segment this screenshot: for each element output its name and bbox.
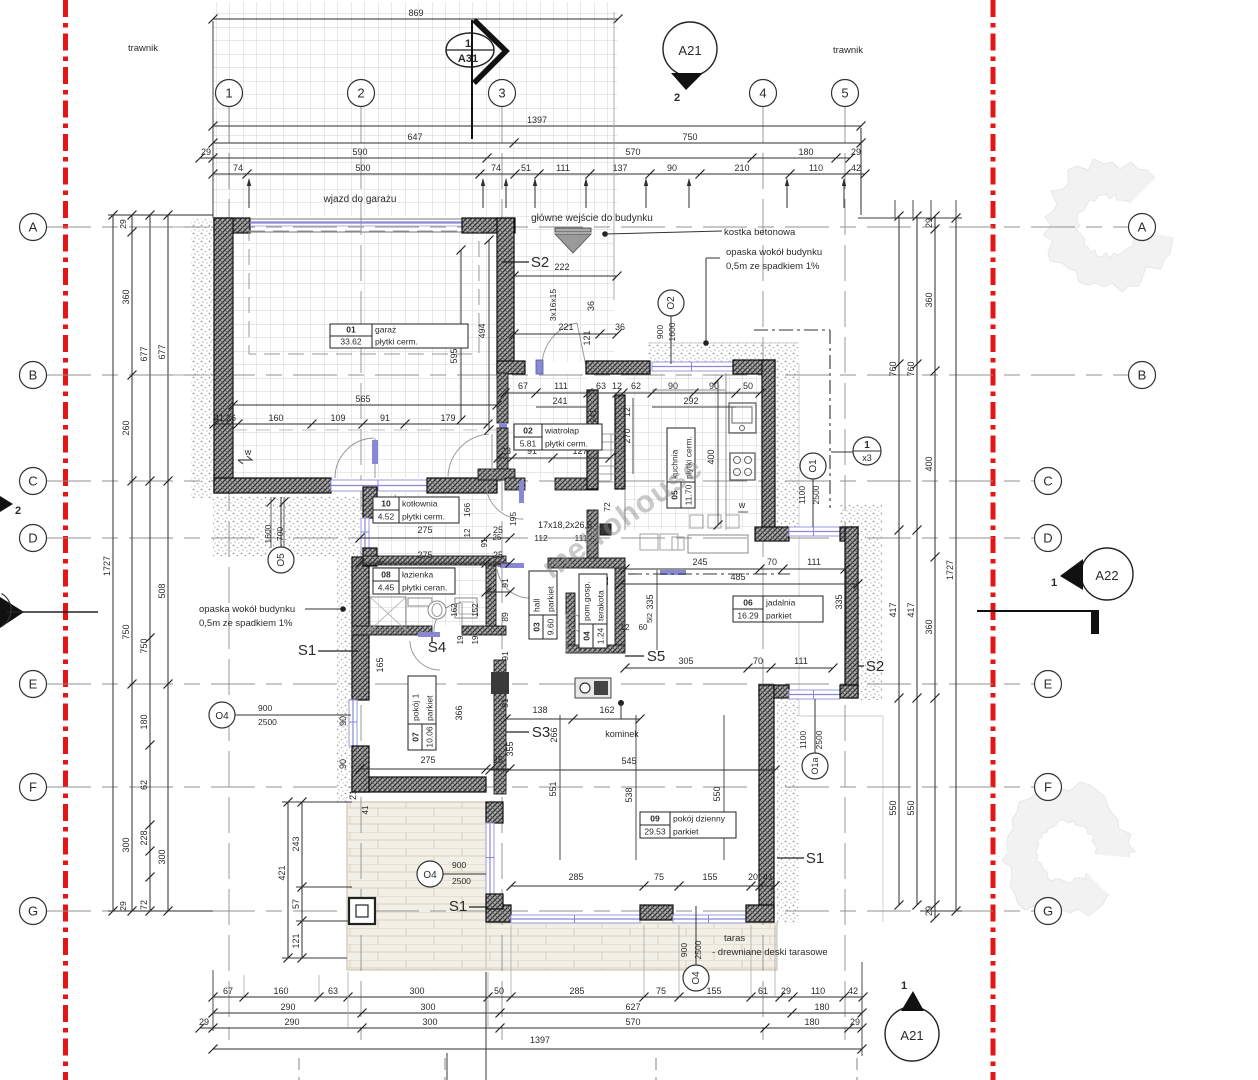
- svg-text:S1: S1: [806, 850, 824, 867]
- svg-text:F: F: [1044, 780, 1052, 795]
- svg-text:19: 19: [456, 635, 465, 644]
- svg-text:90: 90: [338, 716, 348, 726]
- garage vertical dims 595 494: [449, 236, 494, 435]
- svg-text:06: 06: [743, 598, 753, 608]
- left edge marker arrow 2 upper: [0, 496, 21, 517]
- svg-text:kotłownia: kotłownia: [402, 499, 438, 509]
- svg-text:2500: 2500: [258, 717, 277, 727]
- marker A31 top section flag: [446, 20, 506, 139]
- wall hall east internal: [566, 593, 575, 650]
- wall lazienka south internal west: [352, 626, 432, 635]
- room label 04 pom gosp: [579, 574, 607, 648]
- terrace wood deck left block: [347, 802, 486, 970]
- svg-text:0,5m ze spadkiem 1%: 0,5m ze spadkiem 1%: [726, 261, 820, 272]
- svg-text:1: 1: [864, 440, 870, 451]
- svg-text:360: 360: [924, 292, 934, 307]
- dimension column left inner: [121, 211, 137, 916]
- wall pokoj dzienny south west corner: [486, 905, 511, 922]
- wall garage south east segment: [427, 478, 497, 493]
- wall jadalnia south east corner: [840, 685, 858, 698]
- axis F horizontal dashed line: [47, 786, 1034, 788]
- wall pokoj dzienny west lower corner: [486, 894, 503, 909]
- kotlownia south dim row 275: [356, 525, 515, 543]
- tree symbol upper right: [1043, 129, 1243, 292]
- label taras: [712, 933, 828, 958]
- dimension 647 750: [209, 132, 866, 148]
- svg-text:91: 91: [380, 413, 390, 423]
- svg-text:50: 50: [743, 381, 753, 391]
- svg-text:90: 90: [668, 381, 678, 391]
- svg-text:A: A: [29, 220, 38, 235]
- lazienka washbasin: [408, 598, 446, 619]
- svg-text:O4: O4: [691, 971, 702, 985]
- svg-text:w: w: [738, 500, 746, 510]
- marker A22 section cut line: [977, 611, 1099, 634]
- window pokoj dzienny south 2: [673, 915, 746, 923]
- axis C circle left: [20, 468, 47, 495]
- svg-text:29: 29: [850, 1017, 860, 1027]
- wall pokoj dzienny east: [759, 685, 774, 919]
- kotlownia dims: [462, 503, 518, 548]
- svg-text:2: 2: [674, 92, 680, 104]
- wall pokoj dzienny south middle pier: [640, 905, 673, 920]
- svg-text:63: 63: [328, 986, 338, 996]
- svg-text:20: 20: [748, 872, 758, 882]
- svg-text:1727: 1727: [945, 560, 955, 580]
- wall pokoj dzienny west upper corner: [486, 802, 503, 823]
- svg-text:91: 91: [480, 538, 489, 547]
- door garage left swing: [335, 438, 375, 478]
- svg-text:F: F: [29, 780, 37, 795]
- svg-text:S2: S2: [866, 658, 884, 675]
- svg-text:292: 292: [683, 396, 698, 406]
- svg-text:kominek: kominek: [605, 729, 639, 739]
- dimension column right third: [924, 212, 940, 923]
- svg-text:275: 275: [420, 755, 435, 765]
- svg-text:A31: A31: [458, 53, 478, 65]
- wall pom gosp south internal: [566, 645, 625, 653]
- svg-text:545: 545: [621, 756, 636, 766]
- paving grid entry porch: [500, 216, 614, 362]
- dim 241 292: [536, 396, 736, 407]
- property boundary red line left: [63, 0, 68, 1080]
- axis 1 circle top: [216, 80, 243, 107]
- axis F circle right: [1035, 774, 1062, 801]
- room label 05 kuchnia: [667, 428, 695, 508]
- chimney flue block: [600, 524, 611, 535]
- svg-text:647: 647: [407, 132, 422, 142]
- svg-text:1: 1: [901, 980, 907, 992]
- wall west lower section upper: [352, 557, 369, 700]
- svg-text:565: 565: [355, 394, 370, 404]
- svg-text:508: 508: [157, 583, 167, 598]
- dim 72 89 91 near hall: [500, 502, 612, 708]
- svg-text:241: 241: [589, 409, 598, 423]
- svg-text:260: 260: [121, 420, 131, 435]
- wall shaft east kuchnia side: [615, 395, 625, 489]
- dim row 285 75 155 20 41 salon south: [507, 872, 780, 891]
- svg-text:29: 29: [781, 986, 791, 996]
- label kostka betonowa with leader: [603, 227, 796, 238]
- section mark S2 right: [858, 658, 884, 675]
- svg-text:36: 36: [615, 322, 625, 332]
- lazienka dim row 2: [450, 603, 480, 645]
- floor grid wiatrolap: [508, 374, 587, 478]
- tree symbol lower right: [1002, 782, 1206, 952]
- axis G circle right: [1035, 898, 1062, 925]
- svg-text:121: 121: [291, 933, 301, 948]
- floor grid kuchnia: [625, 373, 762, 530]
- section mark S1 left: [298, 642, 358, 659]
- svg-text:parkiet: parkiet: [766, 611, 792, 621]
- svg-text:180: 180: [139, 714, 149, 729]
- svg-text:pom.gosp.: pom.gosp.: [582, 581, 592, 621]
- floor grid kotlownia: [377, 493, 497, 556]
- svg-text:366: 366: [454, 705, 464, 720]
- svg-text:w: w: [244, 447, 252, 457]
- jadalnia table and chairs: [672, 515, 748, 553]
- door wiatrolap swing into hall: [486, 486, 523, 520]
- wall spine west of wiatrolap upper: [497, 373, 508, 423]
- axis 4 circle top: [750, 80, 777, 107]
- axis 1 vertical dashed line: [228, 107, 230, 1040]
- svg-text:1100: 1100: [798, 731, 808, 750]
- svg-text:C: C: [28, 474, 37, 489]
- wall lazienka south internal east: [462, 626, 506, 635]
- garage interior dim 565: [229, 394, 502, 410]
- wall garage west: [214, 218, 233, 493]
- door pokoj 07 swing: [410, 641, 440, 670]
- svg-text:74: 74: [491, 163, 501, 173]
- svg-text:pokój 1: pokój 1: [411, 693, 421, 721]
- svg-text:677: 677: [139, 346, 149, 361]
- svg-text:266: 266: [549, 727, 559, 742]
- dim 485: [616, 572, 863, 589]
- svg-text:360: 360: [924, 619, 934, 634]
- svg-text:89: 89: [500, 612, 510, 622]
- dim 138 162 kominek: [502, 705, 645, 724]
- svg-text:228: 228: [139, 830, 149, 845]
- svg-text:5l2: 5l2: [645, 613, 654, 623]
- kuchnia fridge w mark: [738, 500, 748, 512]
- svg-text:160: 160: [273, 986, 288, 996]
- svg-text:29: 29: [118, 219, 128, 229]
- dimension row 74 500 74 51 111 137 90 210 110 42: [209, 163, 870, 179]
- svg-text:137: 137: [612, 163, 627, 173]
- kominek label and dot: [605, 701, 639, 740]
- svg-text:trawnik: trawnik: [833, 45, 863, 56]
- svg-text:91: 91: [500, 698, 510, 708]
- svg-text:12: 12: [489, 0, 499, 2]
- wall entry porch south west piece: [497, 361, 525, 374]
- svg-text:parkiet: parkiet: [673, 827, 699, 837]
- wall entry to kitchen north segment: [586, 361, 650, 374]
- svg-text:2: 2: [357, 86, 364, 101]
- w mark lazienka: [376, 557, 384, 567]
- svg-text:12: 12: [621, 623, 630, 632]
- svg-text:opaska wokół budynku: opaska wokół budynku: [726, 247, 822, 258]
- window pokoj 07 west: [349, 700, 357, 746]
- kitchen upper cabinets line: [625, 490, 678, 550]
- window jadalnia south: [789, 690, 840, 699]
- svg-text:160: 160: [268, 413, 283, 423]
- svg-text:25: 25: [493, 755, 503, 765]
- svg-text:1600: 1600: [263, 524, 273, 543]
- svg-text:900: 900: [655, 325, 665, 339]
- window pokoj dzienny south 1: [511, 915, 640, 923]
- stairs treads: [599, 434, 624, 482]
- svg-text:61: 61: [758, 986, 768, 996]
- svg-text:19: 19: [471, 635, 480, 644]
- axis A horizontal dashed line: [47, 226, 1128, 228]
- window kuchnia north: [652, 362, 733, 371]
- svg-text:- drewniane deski tarasowe: - drewniane deski tarasowe: [712, 947, 828, 958]
- svg-text:D: D: [1043, 531, 1052, 546]
- svg-text:494: 494: [477, 323, 487, 338]
- svg-text:A: A: [1138, 220, 1147, 235]
- dim 400 kuchnia: [706, 376, 723, 530]
- svg-text:1: 1: [225, 86, 232, 101]
- svg-text:23: 23: [501, 446, 511, 456]
- window marker O1a: [798, 699, 828, 779]
- svg-text:4.52: 4.52: [378, 512, 395, 522]
- svg-text:121: 121: [582, 330, 592, 345]
- axis B horizontal dashed line: [47, 374, 1128, 376]
- label trawnik right: [833, 45, 863, 56]
- opaska stipple east of jadalnia: [858, 528, 882, 700]
- dim 270 12 shaft: [622, 398, 633, 474]
- dimension column left wallface: [157, 211, 173, 916]
- svg-text:1: 1: [465, 38, 471, 50]
- svg-text:152: 152: [471, 603, 480, 617]
- svg-text:162: 162: [599, 705, 614, 715]
- axis A circle left: [20, 214, 47, 241]
- wall jadalnia north step segment: [755, 527, 789, 541]
- section mark S1 right bottom: [777, 850, 824, 867]
- axis 5 vertical dashed line: [844, 107, 846, 1040]
- svg-text:07: 07: [411, 732, 421, 742]
- axis D horizontal dashed line: [47, 537, 1034, 539]
- stairs dim label 17x18: [534, 520, 592, 543]
- svg-text:12: 12: [463, 528, 472, 537]
- label wjazd do garazu: [323, 194, 397, 205]
- door garage corridor blue post: [499, 423, 507, 428]
- room label 03 hall: [529, 571, 557, 639]
- axis E horizontal dashed line: [47, 683, 1034, 685]
- svg-text:2: 2: [15, 505, 21, 517]
- svg-text:S3: S3: [532, 724, 550, 741]
- dimension column right 1727: [945, 214, 961, 916]
- wall garage south west segment: [214, 478, 331, 493]
- svg-text:08: 08: [381, 570, 391, 580]
- svg-text:111: 111: [807, 557, 821, 567]
- svg-text:180: 180: [814, 1002, 829, 1012]
- stairs label 3x16x15: [548, 289, 558, 321]
- floor grid garage interior: [229, 232, 497, 478]
- svg-text:60: 60: [639, 623, 648, 632]
- svg-text:9.60: 9.60: [546, 618, 556, 635]
- marker A21 top balloon: [663, 22, 717, 104]
- window garage south: [331, 480, 427, 491]
- lazienka dims 275 rows: [356, 0, 515, 597]
- svg-text:750: 750: [139, 638, 149, 653]
- terrace dimension column 421: [277, 798, 293, 963]
- section mark S3: [506, 724, 550, 741]
- svg-text:138: 138: [532, 705, 547, 715]
- svg-text:1: 1: [1051, 577, 1057, 589]
- svg-text:kostka betonowa: kostka betonowa: [724, 227, 796, 238]
- svg-text:D: D: [28, 531, 37, 546]
- wall komin partition: [494, 660, 506, 794]
- door wiatrolap hall blue post: [519, 481, 524, 503]
- svg-text:290: 290: [284, 1017, 299, 1027]
- axis C circle right: [1035, 468, 1062, 495]
- svg-text:terakota: terakota: [596, 590, 606, 621]
- section mark S2 top with leader: [502, 254, 549, 271]
- opaska dashdot salon line: [628, 573, 790, 575]
- svg-text:jadalnia: jadalnia: [765, 598, 796, 608]
- label opaska right with leader: [704, 247, 822, 345]
- axis E circle left: [20, 671, 47, 698]
- opaska stipple northeast corner jadalnia: [840, 505, 882, 530]
- axis D circle left: [20, 525, 47, 552]
- wall pom gosp east internal: [615, 558, 625, 650]
- window marker O5: [263, 497, 294, 573]
- svg-text:hall: hall: [532, 599, 542, 612]
- svg-text:42: 42: [848, 986, 858, 996]
- svg-text:180: 180: [798, 147, 813, 157]
- svg-text:trawnik: trawnik: [128, 43, 158, 54]
- dimension column right second: [906, 212, 922, 910]
- svg-text:335: 335: [645, 594, 655, 609]
- wall lazienka north internal: [363, 556, 506, 565]
- axis B circle right: [1129, 362, 1156, 389]
- svg-text:570: 570: [625, 147, 640, 157]
- room label 07 pokoj: [408, 676, 436, 750]
- svg-text:25: 25: [493, 560, 502, 569]
- svg-text:595: 595: [449, 348, 459, 363]
- svg-text:29: 29: [118, 901, 128, 911]
- svg-text:677: 677: [157, 344, 167, 359]
- svg-text:pokój dzienny: pokój dzienny: [673, 814, 726, 824]
- marker A22 right balloon: [1051, 548, 1133, 600]
- svg-text:750: 750: [682, 132, 697, 142]
- dim 221 36 entry steps: [510, 301, 626, 346]
- left edge marker section wedge: [0, 594, 98, 629]
- floor grid lazienka: [368, 566, 486, 626]
- svg-text:75: 75: [656, 986, 666, 996]
- axis G circle left: [20, 898, 47, 925]
- kuchnia counter line: [652, 373, 726, 530]
- svg-text:29.53: 29.53: [644, 827, 666, 837]
- dim 222 entry: [510, 262, 622, 281]
- garage inner dashed rectangle: [249, 231, 479, 354]
- svg-text:2500: 2500: [452, 876, 471, 886]
- svg-text:162: 162: [450, 603, 459, 617]
- svg-text:09: 09: [650, 814, 660, 824]
- svg-text:900: 900: [452, 860, 466, 870]
- svg-text:25: 25: [493, 550, 503, 560]
- svg-text:O2: O2: [666, 296, 677, 310]
- svg-text:75: 75: [654, 872, 664, 882]
- property boundary red line right: [991, 0, 996, 1080]
- door garage right swing: [448, 434, 492, 478]
- svg-text:O1a: O1a: [810, 757, 820, 774]
- opaska stipple east of kuchnia: [775, 364, 799, 530]
- w mark garage: [238, 447, 252, 464]
- svg-text:165: 165: [375, 657, 385, 672]
- svg-text:16.29: 16.29: [737, 611, 759, 621]
- svg-text:417: 417: [888, 602, 898, 617]
- entry door blue post: [536, 360, 543, 374]
- svg-text:płytki cerm.: płytki cerm.: [375, 337, 418, 347]
- svg-text:1.24: 1.24: [596, 627, 606, 644]
- svg-text:taras: taras: [724, 933, 745, 944]
- svg-text:2500: 2500: [814, 730, 824, 749]
- svg-text:parkiet: parkiet: [425, 695, 435, 721]
- svg-text:główne wejście do budynku: główne wejście do budynku: [531, 213, 653, 224]
- bottom row 29 290 300 570 180 29: [196, 1017, 867, 1033]
- watermark metrohouse: [535, 449, 709, 585]
- door pokoj dzienny from hall swing: [497, 570, 533, 598]
- svg-text:E: E: [29, 677, 38, 692]
- axis 5 circle top: [832, 80, 859, 107]
- svg-text:41: 41: [214, 413, 224, 423]
- svg-text:551: 551: [548, 781, 558, 796]
- dim 545 salon top: [486, 756, 780, 775]
- dim row under kitchen window 67 111 63 12 62 90 90 50: [501, 381, 765, 398]
- svg-text:łazienka: łazienka: [402, 570, 433, 580]
- wall wiatrolap south east piece: [555, 478, 598, 490]
- svg-text:1600: 1600: [667, 322, 677, 341]
- svg-text:29: 29: [851, 147, 861, 157]
- window jadalnia north: [789, 527, 840, 536]
- svg-text:421: 421: [277, 865, 287, 880]
- svg-text:110: 110: [811, 986, 825, 996]
- witness stubs below top row: [247, 178, 846, 208]
- svg-text:300: 300: [409, 986, 424, 996]
- garage gate blue band: [250, 223, 462, 227]
- wall korytarz south piece: [478, 469, 515, 480]
- window pokoj dzienny west terrace: [486, 823, 494, 894]
- svg-text:O4: O4: [215, 711, 229, 722]
- marker 1 x3 circle: [831, 437, 881, 465]
- axis 3 vertical dashed line: [501, 107, 503, 1040]
- opaska stipple west of garage: [191, 218, 214, 498]
- svg-text:166: 166: [462, 503, 472, 517]
- wall jadalnia south west corner: [759, 685, 789, 698]
- svg-text:285: 285: [569, 986, 584, 996]
- svg-text:12: 12: [612, 381, 622, 391]
- pokoj 07 vertical dims: [338, 657, 559, 814]
- axis E circle right: [1035, 671, 1062, 698]
- window marker O1: [797, 453, 826, 527]
- door lazienka arc: [434, 603, 462, 632]
- svg-text:62: 62: [631, 381, 641, 391]
- axis F circle left: [20, 774, 47, 801]
- svg-text:869: 869: [408, 8, 423, 18]
- svg-text:O4: O4: [423, 870, 437, 881]
- wall south of pokoj 07: [352, 777, 486, 792]
- wall wiatrolap south west piece: [505, 478, 525, 490]
- svg-text:36: 36: [586, 301, 596, 311]
- garage center dashed cross lines: [233, 429, 497, 431]
- svg-text:płytki cerm.: płytki cerm.: [402, 512, 445, 522]
- svg-text:S1: S1: [298, 642, 316, 659]
- svg-text:300: 300: [420, 1002, 435, 1012]
- label trawnik left: [128, 43, 158, 54]
- terrace wood deck south strip: [486, 923, 777, 970]
